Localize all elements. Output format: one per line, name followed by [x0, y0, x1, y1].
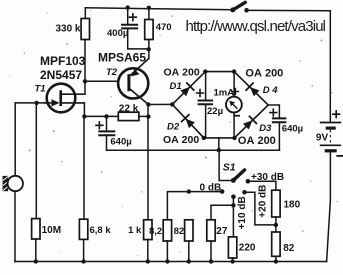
node 180 / 82 / +20dB junction — [274, 223, 278, 227]
wire 27 bottom lead — [210, 241, 212, 262]
label 82 — [174, 226, 185, 237]
wire 27 top connector — [211, 205, 233, 220]
resistor 6.8k — [79, 219, 87, 239]
wire 220 bottom lead — [232, 258, 234, 262]
resistor 10M — [32, 219, 40, 239]
svg-text:MPF103: MPF103 — [40, 54, 86, 68]
wire T1 gate lead — [15, 102, 46, 104]
node S1 contact 0dB — [220, 189, 225, 194]
svg-text:27: 27 — [216, 226, 228, 237]
label 22 k — [119, 103, 139, 114]
node 220 / ground rail — [230, 259, 234, 263]
label - of battery — [336, 155, 343, 157]
wire 22u bottom lead — [205, 104, 207, 138]
wire collector column down to 1k — [147, 105, 149, 220]
svg-text:9V: 9V — [316, 133, 329, 144]
diode D2 OA200 — [181, 114, 195, 128]
resistor 220 — [228, 237, 236, 258]
node bridge bottom-right corner — [232, 136, 236, 140]
capacitor C 22u — [198, 101, 214, 105]
wire bridge top edge — [205, 71, 234, 73]
wire battery negative lead — [327, 152, 331, 261]
svg-text:S1: S1 — [223, 161, 236, 173]
node bridge left vertex — [170, 102, 174, 106]
node 640u-left top tap — [104, 114, 108, 118]
svg-text:400µ: 400µ — [107, 28, 128, 39]
wire meter top lead — [233, 72, 235, 97]
node +10dB / 27 tap junction — [231, 203, 235, 207]
label 220 — [239, 242, 256, 253]
svg-text:+20 dB: +20 dB — [257, 185, 268, 218]
label OA 200 of D4 — [245, 68, 283, 80]
switch power switch on top rail — [230, 2, 249, 12]
wire microphone to ground rail — [14, 191, 16, 261]
node T1 drain / 330k / T2 base junction — [83, 79, 87, 83]
svg-text:T1: T1 — [35, 84, 46, 95]
svg-text:MPSA65: MPSA65 — [98, 50, 146, 64]
switch S1 selector — [231, 170, 245, 183]
svg-text:10M: 10M — [42, 225, 61, 236]
svg-text:82: 82 — [174, 226, 185, 237]
label D1 — [170, 81, 182, 92]
svg-text:D2: D2 — [167, 122, 180, 133]
wire 640u-left top lead — [106, 116, 108, 131]
node top rail / 400u tap — [126, 5, 130, 9]
wire 10M bottom lead — [35, 239, 37, 262]
node 22k / T2 collector column — [146, 114, 150, 118]
node 470 / 400u / T2 emitter junction — [147, 47, 151, 51]
capacitor C 640u left — [98, 131, 115, 135]
node 6.8k / ground rail — [81, 259, 85, 263]
wire rectifier output bus — [107, 149, 280, 151]
svg-text:640µ: 640µ — [282, 123, 303, 134]
node 27 / ground rail — [209, 259, 213, 263]
label D3 — [259, 123, 272, 134]
microphone M1 — [3, 176, 23, 191]
wire +30dB net — [248, 181, 276, 190]
label + of 400u — [129, 13, 137, 21]
svg-text:OA 200: OA 200 — [164, 67, 200, 79]
svg-text:8,2: 8,2 — [149, 226, 162, 237]
resistor 470 — [145, 20, 153, 40]
resistor 1k — [144, 220, 152, 240]
wire ground rail — [15, 261, 327, 263]
svg-text:330 k: 330 k — [55, 24, 80, 35]
wire 82-output bottom lead — [275, 256, 277, 261]
node bridge top-left corner — [203, 69, 207, 73]
label 10M — [42, 225, 61, 236]
resistor 8.2 — [163, 220, 171, 241]
wire bridge edge lower-left — [172, 104, 204, 137]
node 82-output / ground rail — [274, 259, 278, 263]
wire 640u-right bottom lead — [278, 122, 280, 150]
node 10M / ground rail — [34, 259, 38, 263]
label 330 k — [55, 24, 80, 35]
label 180 — [284, 200, 301, 211]
resistor 330k — [81, 19, 89, 40]
wire 6.8k top lead — [83, 116, 85, 219]
label 9V — [316, 133, 329, 144]
node 82 / ground rail — [187, 259, 191, 263]
wire collector node to bridge left vertex — [148, 103, 172, 105]
svg-text:+10 dB: +10 dB — [237, 196, 248, 229]
node bridge bottom-left corner — [202, 136, 206, 140]
svg-text:82: 82 — [283, 243, 295, 254]
svg-text:OA 200: OA 200 — [238, 135, 276, 147]
wire bridge edge upper-left — [172, 72, 205, 105]
label + of meter — [232, 88, 240, 96]
label 2N5457 — [40, 68, 82, 82]
wire 6.8k bottom lead — [83, 239, 85, 261]
label OA 200 of D3 — [238, 135, 276, 147]
battery BT 9V — [320, 123, 341, 151]
resistor 27 — [207, 220, 215, 241]
node S1 contact +10dB — [231, 195, 236, 200]
svg-text:180: 180 — [284, 200, 301, 211]
node top rail / 470 tap — [147, 6, 151, 10]
wire meter bottom lead — [233, 113, 235, 138]
node T2 collector junction — [146, 102, 150, 106]
svg-text:220: 220 — [239, 242, 256, 253]
wire output bus down to S1 — [219, 150, 231, 180]
label OA 200 of D2 — [163, 134, 199, 146]
label OA 200 of D1 — [164, 67, 200, 79]
label 400&#181; — [107, 28, 128, 39]
wire 330k bottom lead to T1 drain node — [84, 40, 86, 95]
node bridge top-right corner — [232, 69, 236, 73]
label +10 dB vertical — [237, 196, 248, 229]
label 0 dB — [200, 182, 222, 193]
label + of 22u — [196, 89, 204, 97]
wire 1k bottom lead — [147, 240, 149, 262]
wire 180 bottom lead — [275, 217, 277, 232]
wire +20dB net — [245, 192, 276, 225]
wire 470 bottom lead — [148, 40, 150, 51]
svg-text:D3: D3 — [259, 123, 272, 134]
label MPF103 — [40, 54, 86, 68]
svg-text:D1: D1 — [170, 81, 182, 92]
label D 4 — [263, 85, 279, 96]
label 27 — [216, 226, 228, 237]
wire bridge edge lower-right — [235, 105, 269, 138]
svg-text:D 4: D 4 — [263, 85, 279, 96]
svg-text:1 k: 1 k — [128, 225, 142, 236]
transistor Q T1 MPF103 JFET — [44, 84, 85, 113]
wire T1 drain node to T2 base — [85, 80, 127, 82]
label 82 output — [283, 243, 295, 254]
label 8,2 — [149, 226, 162, 237]
label T2 — [106, 67, 118, 78]
resistor 22k — [118, 112, 139, 120]
label D2 — [167, 122, 180, 133]
svg-text:T2: T2 — [106, 67, 118, 78]
label +30 dB — [251, 172, 284, 183]
svg-text:6,8 k: 6,8 k — [90, 225, 112, 236]
resistor 82 output — [272, 232, 280, 256]
wire 470 top lead — [148, 8, 150, 20]
node 0dB net / 82 tap — [187, 189, 191, 193]
wire 82 bottom lead — [188, 241, 190, 262]
wire 10M top lead — [35, 103, 37, 219]
node T1 source / 22k / 6.8k junction — [82, 114, 86, 118]
wire top rail left section — [86, 8, 233, 10]
svg-text:640µ: 640µ — [110, 136, 131, 147]
node 8.2 / ground rail — [165, 259, 169, 263]
wire bridge bottom tap — [218, 138, 220, 150]
wire gate down to microphone — [14, 103, 16, 176]
wire source node to 22k — [84, 115, 118, 117]
label 640&#181; left — [110, 136, 131, 147]
label T1 — [35, 84, 46, 95]
wire 640u-left bottom lead to output bus — [106, 135, 108, 150]
wire T1 source lead down — [83, 103, 85, 117]
label +20 dB vertical — [257, 185, 268, 218]
label + of 640u-left — [95, 121, 103, 129]
svg-text:OA 200: OA 200 — [163, 134, 199, 146]
resistor 180 — [272, 190, 280, 217]
label + of 640u-right — [269, 108, 277, 116]
node output bus / S1 feed junction — [217, 148, 221, 152]
transistor Q T2 MPSA65 — [118, 58, 149, 104]
diode D1 OA200 — [180, 82, 194, 96]
wire +10dB net down to 220 — [232, 197, 234, 237]
wire T2 emitter lead — [148, 49, 150, 58]
svg-text:http://www.qsl.net/va3iul: http://www.qsl.net/va3iul — [186, 18, 326, 35]
label MPSA65 — [98, 50, 146, 64]
svg-text:470: 470 — [156, 22, 172, 33]
label 640&#181; right — [282, 123, 303, 134]
diode D3 OA200 — [243, 116, 257, 130]
node S1 contact +30dB — [246, 179, 251, 184]
svg-text:22 k: 22 k — [119, 103, 139, 114]
wire 330k top lead — [84, 8, 86, 19]
diode D4 OA200 — [246, 83, 260, 97]
wire bridge right vertex to 640u-right — [268, 105, 279, 118]
svg-text:2N5457: 2N5457 — [40, 68, 82, 82]
wire bridge edge upper-right — [234, 72, 268, 105]
wire 22u top lead — [205, 72, 207, 101]
label + of battery — [332, 110, 340, 118]
label url http://www.qsl.net/va3iul — [186, 18, 326, 35]
label S1 — [223, 161, 236, 173]
wire top rail right section — [249, 9, 330, 11]
wire 22k right lead — [139, 115, 149, 117]
wire bridge bottom edge — [204, 137, 235, 139]
capacitor C 400u — [121, 25, 138, 29]
wire 0dB net — [167, 192, 222, 220]
label 470 — [156, 22, 172, 33]
resistor 82 attenuator — [185, 220, 193, 241]
meter M 1mA — [226, 97, 242, 113]
capacitor C 640u right — [272, 118, 287, 122]
svg-text:OA 200: OA 200 — [245, 68, 283, 80]
wire 8.2 bottom lead — [166, 241, 168, 262]
wire battery positive lead — [329, 11, 331, 123]
label 22&#181; — [207, 106, 223, 117]
label - of meter — [233, 115, 240, 117]
svg-text:22µ: 22µ — [207, 106, 223, 117]
label 6,8 k — [90, 225, 112, 236]
label 1mA — [214, 87, 235, 98]
wire 400u bottom lead — [128, 28, 149, 49]
node 1k / ground rail — [146, 259, 150, 263]
wire 400u top lead — [127, 8, 129, 25]
node gate / 10M junction — [34, 101, 38, 105]
label 1 k — [128, 225, 142, 236]
node S1 contact +20dB — [242, 190, 247, 195]
